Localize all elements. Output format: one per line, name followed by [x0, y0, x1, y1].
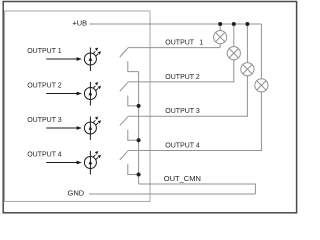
lamp La4: [255, 79, 268, 92]
input arrow 3: [46, 126, 82, 130]
junction rail-lamp1: [218, 22, 222, 26]
LED V4: [84, 151, 101, 175]
junction bus-S4: [137, 173, 141, 177]
junction bus-S3: [137, 138, 141, 142]
wire OUTPUT 4 line: [128, 92, 262, 151]
wire OUTPUT 2 line: [128, 60, 234, 82]
svg-text:OUTPUT 4: OUTPUT 4: [27, 152, 62, 159]
switch S2: [120, 83, 139, 106]
wire GND line: [89, 193, 255, 195]
svg-text:OUT_CMN: OUT_CMN: [164, 174, 201, 183]
wire lamp feed 4: [260, 24, 262, 79]
wire OUTPUT 1 line: [128, 47, 221, 49]
LED V2: [84, 82, 101, 106]
input arrow 1: [46, 57, 82, 61]
svg-text:OUTPUT 4: OUTPUT 4: [165, 143, 200, 150]
svg-text:OUTPUT: OUTPUT: [165, 40, 195, 47]
wire +UB rail: [90, 23, 262, 25]
lamp La1: [214, 30, 227, 47]
wire lamp feed 1: [219, 24, 221, 31]
svg-text:OUTPUT 3: OUTPUT 3: [165, 108, 200, 115]
svg-text:1: 1: [199, 40, 203, 47]
wire lamp feed 3: [246, 24, 248, 63]
LED V1: [84, 48, 101, 72]
input arrow 2: [46, 92, 82, 96]
svg-text:OUTPUT 3: OUTPUT 3: [27, 117, 62, 124]
svg-text:OUTPUT 2: OUTPUT 2: [165, 74, 200, 81]
module box: [5, 11, 150, 201]
wire lamp feed 2: [233, 24, 235, 47]
input arrow 4: [46, 161, 82, 165]
lamp La2: [227, 47, 240, 60]
svg-text:OUTPUT 2: OUTPUT 2: [27, 83, 62, 90]
switch S3: [120, 117, 139, 140]
junction bus-S2: [137, 104, 141, 108]
LED V3: [84, 117, 101, 141]
wire common bus: [138, 72, 140, 184]
junction rail-lamp2: [232, 22, 236, 26]
wire OUTPUT 3 line: [128, 76, 248, 116]
svg-text:GND: GND: [68, 189, 85, 198]
switch S1: [120, 48, 139, 71]
lamp La3: [241, 63, 254, 76]
junction rail-lamp3: [245, 22, 249, 26]
wire OUT_CMN line: [139, 184, 256, 194]
switch S4: [120, 151, 139, 174]
svg-text:OUTPUT 1: OUTPUT 1: [27, 48, 62, 55]
svg-text:+UB: +UB: [72, 19, 87, 28]
